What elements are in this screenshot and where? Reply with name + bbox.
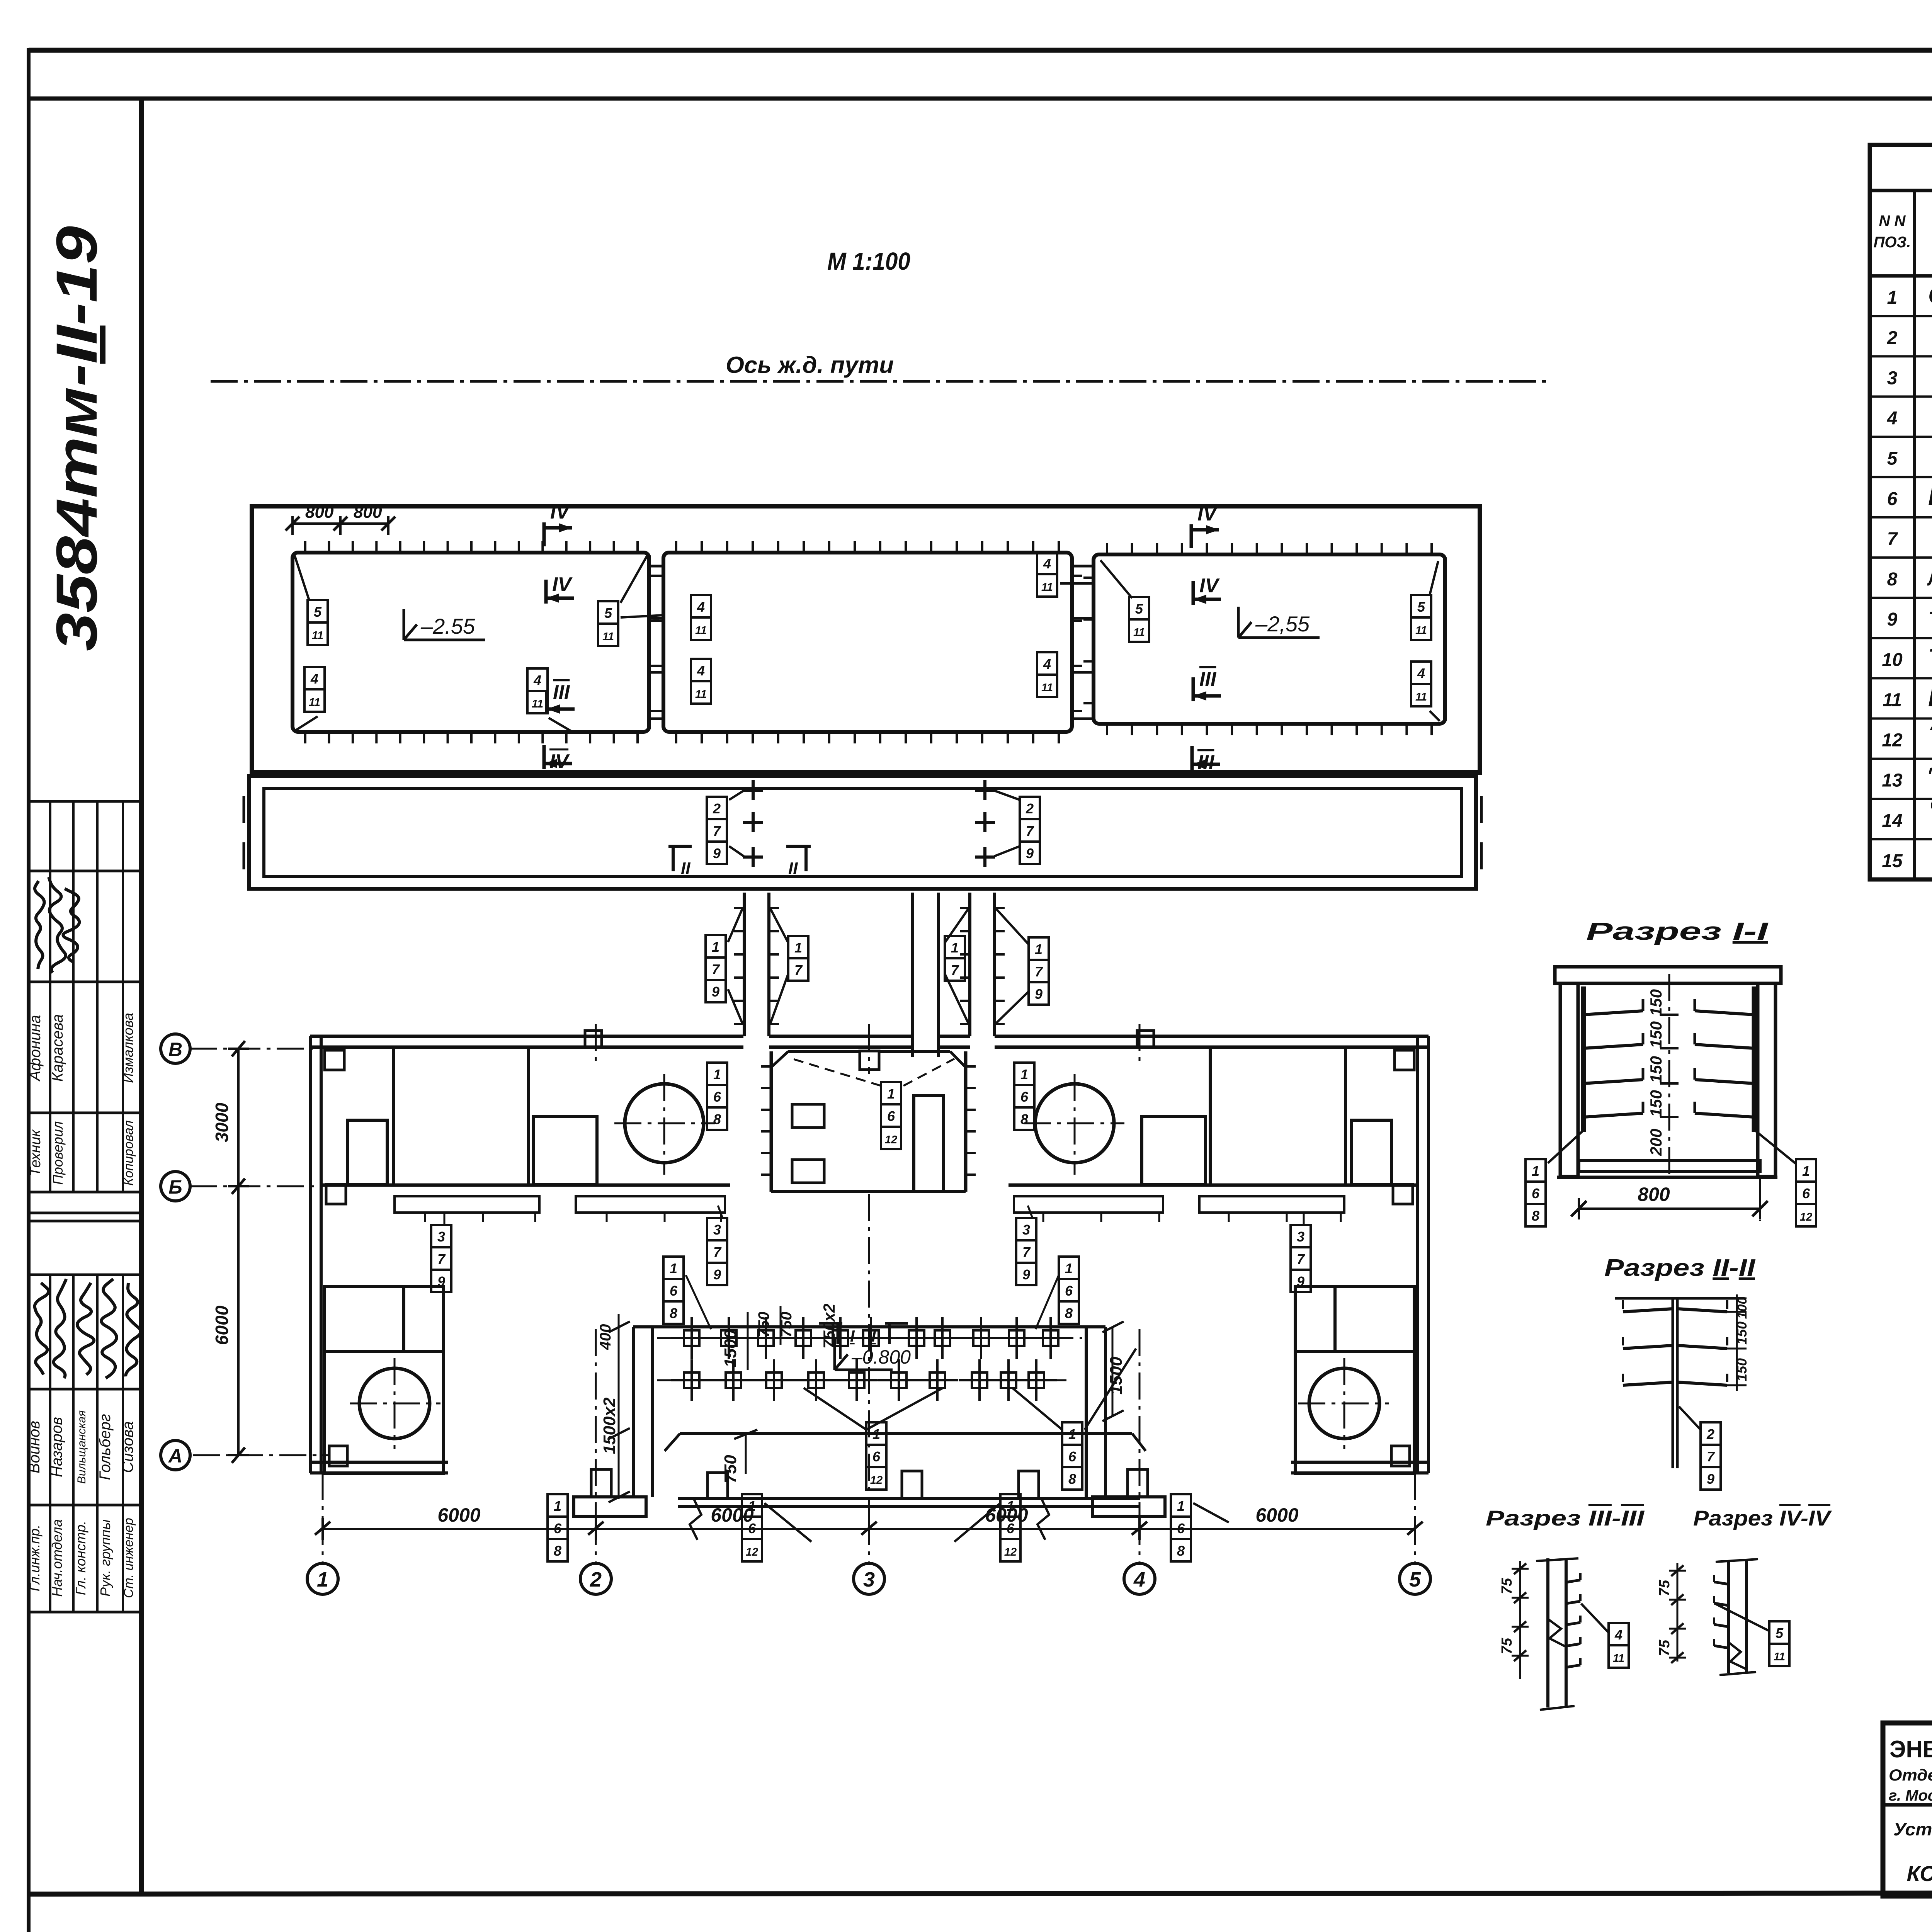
svg-text:9: 9 xyxy=(713,845,721,861)
svg-text:ПОЗ.: ПОЗ. xyxy=(1874,234,1911,251)
svg-text:IV: IV xyxy=(552,573,573,596)
svg-text:800: 800 xyxy=(1638,1184,1670,1205)
svg-text:1: 1 xyxy=(713,1066,721,1082)
svg-text:–0.800: –0.800 xyxy=(851,1346,911,1368)
central hall walls xyxy=(770,1051,773,1192)
svg-text:11: 11 xyxy=(695,624,707,637)
svg-text:8: 8 xyxy=(1065,1305,1073,1321)
sheet frame bottom xyxy=(29,1893,1932,1894)
svg-text:2: 2 xyxy=(1706,1426,1714,1442)
section I-I label boxes xyxy=(1526,1159,1546,1182)
shelf strips left wing xyxy=(395,1196,539,1213)
svg-text:IV: IV xyxy=(550,501,571,523)
svg-text:1: 1 xyxy=(1020,1066,1028,1082)
svg-text:5: 5 xyxy=(1887,449,1898,469)
strip signatures row 2 xyxy=(35,1283,49,1375)
left wing lower room xyxy=(325,1286,444,1473)
svg-text:1: 1 xyxy=(794,940,802,956)
svg-text:11: 11 xyxy=(312,629,323,642)
svg-text:11: 11 xyxy=(1415,624,1427,637)
svg-text:3: 3 xyxy=(1887,368,1898,388)
plan top wall xyxy=(310,1035,743,1038)
svg-text:75: 75 xyxy=(1499,1638,1515,1654)
svg-text:1: 1 xyxy=(1065,1260,1073,1276)
svg-text:5: 5 xyxy=(1135,601,1143,617)
svg-text:12: 12 xyxy=(746,1546,758,1558)
svg-text:1500x2: 1500x2 xyxy=(600,1397,619,1454)
svg-text:То же, но угловой: То же, но угловой xyxy=(1928,643,1932,671)
inner left strip divider xyxy=(139,99,144,1894)
trench cross row 2 xyxy=(684,1372,699,1388)
section IV-IV wall xyxy=(1727,1560,1730,1673)
svg-text:3: 3 xyxy=(863,1568,875,1591)
svg-text:11: 11 xyxy=(1041,682,1053,694)
svg-text:III: III xyxy=(1197,751,1215,774)
svg-text:7: 7 xyxy=(951,962,959,978)
corridor outer rectangle xyxy=(249,776,1476,889)
svg-text:200: 200 xyxy=(1647,1129,1665,1156)
svg-text:8: 8 xyxy=(1177,1543,1185,1559)
svg-text:11: 11 xyxy=(1415,691,1427,703)
plan left wing bottom wall xyxy=(310,1461,448,1464)
upper rect 3 xyxy=(1094,554,1445,724)
svg-text:5: 5 xyxy=(1417,599,1425,615)
svg-text:750: 750 xyxy=(755,1312,772,1338)
svg-text:6: 6 xyxy=(887,1108,895,1124)
right channel walls xyxy=(968,893,971,1036)
section mark III left xyxy=(545,690,549,714)
svg-text:150: 150 xyxy=(1734,1321,1750,1345)
svg-text:4: 4 xyxy=(310,671,318,687)
svg-text:150: 150 xyxy=(1647,1090,1665,1117)
svg-text:12: 12 xyxy=(1800,1211,1812,1223)
svg-text:Проверил: Проверил xyxy=(50,1121,66,1185)
section IV-IV dim line xyxy=(1677,1563,1679,1662)
lower band bottom double line xyxy=(678,1497,1140,1500)
svg-text:6000: 6000 xyxy=(1255,1504,1298,1526)
upper outer rectangle xyxy=(252,506,1480,772)
right wing corner squares xyxy=(1395,1050,1414,1070)
svg-text:4: 4 xyxy=(697,663,705,679)
railway axis dash-dot line xyxy=(211,380,1548,383)
svg-text:1: 1 xyxy=(317,1568,328,1591)
rect3 label boxes xyxy=(1129,597,1149,619)
svg-text:11: 11 xyxy=(1041,581,1053,594)
svg-text:7: 7 xyxy=(1022,1244,1031,1260)
upper rect 1 xyxy=(293,553,649,732)
row axis dash-dot lines xyxy=(190,1048,313,1050)
title block outer xyxy=(1883,1723,1932,1896)
svg-text:6: 6 xyxy=(1887,489,1898,509)
svg-text:3584тм-II-19: 3584тм-II-19 xyxy=(44,226,109,651)
row B wall left wing xyxy=(321,1184,730,1187)
svg-text:6: 6 xyxy=(1802,1185,1810,1201)
svg-text:Разрез IV-IV: Разрез IV-IV xyxy=(1693,1506,1832,1530)
svg-text:11: 11 xyxy=(532,698,543,710)
svg-text:1: 1 xyxy=(712,939,719,955)
right wing lower room xyxy=(1295,1286,1414,1473)
svg-text:Разрез I-I: Разрез I-I xyxy=(1586,917,1769,945)
svg-text:ЭНЕРГОСЕТЬПРОЕКТ: ЭНЕРГОСЕТЬПРОЕКТ xyxy=(1889,1736,1932,1763)
left wing partitions xyxy=(392,1047,395,1184)
section mark IV mid-right xyxy=(1192,581,1195,605)
left wing machine circle xyxy=(625,1084,704,1163)
svg-text:6: 6 xyxy=(1068,1449,1077,1464)
svg-text:11: 11 xyxy=(695,688,707,701)
corridor label box left 2/7/9 xyxy=(707,797,727,819)
svg-text:800: 800 xyxy=(305,503,334,522)
grid row bubbles left xyxy=(161,1034,190,1063)
svg-text:6: 6 xyxy=(1532,1185,1540,1201)
svg-text:I: I xyxy=(850,1327,855,1345)
section mark IV top-right xyxy=(1190,524,1193,548)
svg-text:9: 9 xyxy=(713,1267,721,1282)
svg-text:4: 4 xyxy=(533,672,541,688)
svg-text:г. Москва: г. Москва xyxy=(1889,1787,1932,1804)
channel funnel leaders xyxy=(728,908,743,942)
row dim line left xyxy=(237,1049,240,1455)
svg-text:6000: 6000 xyxy=(985,1504,1028,1526)
svg-text:1: 1 xyxy=(887,1086,895,1102)
svg-text:9: 9 xyxy=(1026,845,1034,861)
svg-text:150: 150 xyxy=(1647,989,1665,1016)
svg-text:75: 75 xyxy=(1656,1639,1673,1656)
svg-text:А: А xyxy=(168,1445,182,1467)
svg-text:9: 9 xyxy=(1022,1267,1030,1282)
svg-text:6: 6 xyxy=(1065,1283,1073,1299)
svg-text:5: 5 xyxy=(314,604,322,620)
svg-text:Карасева: Карасева xyxy=(49,1014,66,1082)
svg-text:Гл. констр.: Гл. констр. xyxy=(73,1521,88,1595)
svg-text:2: 2 xyxy=(1887,328,1898,348)
left wing lower circle xyxy=(359,1368,430,1439)
svg-text:5: 5 xyxy=(1409,1568,1421,1591)
rect3 edge ticks xyxy=(1106,543,1108,554)
section II-II shelves xyxy=(1623,1309,1673,1312)
svg-text:N N: N N xyxy=(1879,213,1906,230)
right wing lower circle xyxy=(1309,1368,1379,1439)
shelf strips right wing xyxy=(1014,1196,1163,1213)
svg-text:–2,55: –2,55 xyxy=(1255,612,1310,636)
svg-text:8: 8 xyxy=(1020,1111,1028,1127)
svg-text:Рук. группы: Рук. группы xyxy=(97,1519,113,1597)
svg-text:6: 6 xyxy=(872,1449,881,1464)
svg-text:Асбоцементная перегородка: Асбоцементная перегородка xyxy=(1930,714,1932,734)
svg-text:3000: 3000 xyxy=(212,1102,232,1142)
svg-text:5: 5 xyxy=(604,605,612,621)
svg-text:14: 14 xyxy=(1882,811,1902,831)
svg-text:4: 4 xyxy=(1043,556,1051,571)
svg-text:9: 9 xyxy=(712,984,719,1000)
svg-text:7: 7 xyxy=(1035,964,1043,980)
svg-text:Отделение Дальних Передач: Отделение Дальних Передач xyxy=(1889,1766,1932,1784)
svg-text:6000: 6000 xyxy=(711,1504,753,1526)
level mark -2.55 rect3 xyxy=(1237,607,1240,638)
corridor plus marks left group xyxy=(743,789,763,792)
svg-text:Б: Б xyxy=(168,1176,182,1198)
label boxes 1/6/8 beside hall xyxy=(663,1257,684,1279)
svg-text:Установка синхронных: Установка синхронных xyxy=(1893,1819,1932,1839)
svg-text:1: 1 xyxy=(670,1260,677,1276)
rect2 edge ticks xyxy=(675,541,677,553)
svg-text:Соединитель асбоцементных: Соединитель асбоцементных xyxy=(1930,794,1932,815)
strip signatures row 1 xyxy=(35,881,44,969)
channel label boxes xyxy=(706,935,726,957)
svg-text:То же, но щириной 131мм: То же, но щириной 131мм xyxy=(1928,608,1932,630)
section mark IV bottom-left xyxy=(543,745,546,769)
section IV-IV hooks xyxy=(1714,1582,1728,1584)
corridor inner rectangle xyxy=(264,788,1461,876)
svg-text:1500: 1500 xyxy=(1107,1357,1126,1395)
corridor label box right 2/7/9 xyxy=(1020,797,1040,819)
section II-II label box 2/7/9 xyxy=(1701,1422,1721,1445)
svg-text:13: 13 xyxy=(1882,770,1903,791)
rect1-rect2 connector leader xyxy=(621,615,663,617)
svg-text:750: 750 xyxy=(721,1455,740,1483)
svg-text:12: 12 xyxy=(1004,1546,1017,1558)
svg-text:75: 75 xyxy=(1499,1578,1515,1594)
svg-text:2: 2 xyxy=(713,801,721,816)
section II-II post xyxy=(1672,1298,1674,1468)
svg-text:8: 8 xyxy=(1068,1471,1076,1487)
svg-text:–2.55: –2.55 xyxy=(420,614,475,638)
svg-text:8: 8 xyxy=(670,1305,677,1321)
hall interior rects xyxy=(792,1104,824,1128)
svg-text:4: 4 xyxy=(1887,408,1898,429)
svg-text:11: 11 xyxy=(1774,1651,1785,1663)
svg-text:7: 7 xyxy=(713,823,721,839)
svg-text:1: 1 xyxy=(554,1498,561,1514)
section II-II top line xyxy=(1615,1297,1745,1300)
sheet frame left edge xyxy=(27,48,31,1932)
plan right outer wall xyxy=(1416,1036,1419,1473)
section IV-IV label box 5/11 xyxy=(1769,1621,1789,1644)
svg-text:15: 15 xyxy=(1882,851,1903,871)
section mark III right xyxy=(1192,677,1195,701)
section I-I left stand xyxy=(1581,986,1586,1132)
level mark -0.800 xyxy=(833,1339,836,1370)
svg-text:11: 11 xyxy=(1613,1652,1624,1665)
gap ticks between rect1 and rect2 xyxy=(649,565,663,568)
right wing machine circle xyxy=(1035,1084,1114,1163)
section III-III dim line xyxy=(1519,1561,1521,1679)
svg-text:Разрез II-II: Разрез II-II xyxy=(1604,1255,1756,1281)
section mark II left xyxy=(668,845,692,848)
svg-text:3: 3 xyxy=(437,1229,445,1245)
svg-text:8: 8 xyxy=(713,1111,721,1127)
svg-text:3: 3 xyxy=(713,1222,721,1238)
svg-text:II: II xyxy=(788,859,798,878)
lower band stub squares xyxy=(707,1473,728,1498)
rect1 edge ticks xyxy=(304,541,306,553)
svg-text:400: 400 xyxy=(597,1324,614,1350)
svg-text:1: 1 xyxy=(1887,287,1898,308)
trench left wall xyxy=(632,1327,635,1497)
rect1 label boxes xyxy=(308,600,328,622)
svg-text:12: 12 xyxy=(885,1134,897,1146)
svg-text:5: 5 xyxy=(1776,1625,1784,1641)
svg-text:Гл.инж.пр.: Гл.инж.пр. xyxy=(27,1525,43,1592)
break marks xyxy=(690,1498,701,1540)
svg-text:Назаров: Назаров xyxy=(48,1417,65,1477)
left wing corner squares xyxy=(325,1050,344,1070)
svg-text:11: 11 xyxy=(1133,626,1145,639)
row B wall right wing xyxy=(1009,1184,1418,1187)
section mark IV mid-left xyxy=(544,580,548,604)
svg-text:II: II xyxy=(681,859,690,878)
section mark III bottom-right xyxy=(1190,746,1194,770)
svg-text:IV: IV xyxy=(549,750,570,773)
svg-text:КСВБ-50-11У1: КСВБ-50-11У1 xyxy=(1906,1861,1932,1886)
corridor plus marks right group xyxy=(975,789,995,792)
left strip signature table xyxy=(29,800,141,803)
grid bubbles bottom xyxy=(322,1518,324,1563)
svg-text:1500: 1500 xyxy=(721,1330,740,1367)
title block left cell xyxy=(1883,1803,1932,1807)
section I-I top slab xyxy=(1555,967,1781,983)
svg-text:1: 1 xyxy=(1802,1163,1810,1179)
grid column axis segments xyxy=(322,1473,324,1518)
dim 750 lower band xyxy=(745,1434,747,1474)
plan right wing bottom wall xyxy=(1291,1461,1429,1464)
svg-text:8: 8 xyxy=(554,1543,561,1559)
svg-text:Сизова: Сизова xyxy=(119,1421,136,1473)
grid dim line bottom xyxy=(323,1528,1415,1530)
svg-text:Копировал: Копировал xyxy=(121,1120,136,1185)
rail lines xyxy=(911,893,914,1057)
svg-text:III: III xyxy=(553,681,570,704)
svg-text:1: 1 xyxy=(951,940,959,956)
section I-I centerline xyxy=(1668,974,1670,1177)
svg-text:Афонина: Афонина xyxy=(27,1015,44,1082)
svg-text:В: В xyxy=(168,1039,182,1060)
svg-text:Полка кабельная: Полка кабельная xyxy=(1928,483,1932,510)
rect1 leaders xyxy=(294,555,309,600)
svg-text:11: 11 xyxy=(309,696,320,709)
svg-text:Ось ж.д. пути: Ось ж.д. пути xyxy=(726,352,894,378)
trench cross row 1 xyxy=(684,1330,699,1346)
section I-I right stand xyxy=(1752,986,1757,1132)
svg-text:7: 7 xyxy=(713,1244,722,1260)
corridor end ticks xyxy=(243,796,245,823)
svg-text:Войнов: Войнов xyxy=(26,1421,43,1473)
svg-text:Гольберг: Гольберг xyxy=(97,1414,114,1480)
plan left outer wall xyxy=(309,1036,312,1473)
svg-text:4: 4 xyxy=(697,599,705,615)
section III-III label box 4/11 xyxy=(1609,1623,1629,1645)
svg-text:7: 7 xyxy=(1026,823,1034,839)
svg-text:11: 11 xyxy=(602,631,614,643)
svg-text:12: 12 xyxy=(870,1474,883,1486)
svg-text:Техник: Техник xyxy=(27,1129,44,1176)
svg-text:12: 12 xyxy=(1882,730,1903,751)
trench right wall xyxy=(1085,1327,1088,1497)
sheet frame top band line 1 xyxy=(29,48,1932,53)
svg-text:6: 6 xyxy=(1020,1089,1029,1105)
svg-text:3: 3 xyxy=(1297,1229,1304,1245)
svg-text:Подвеска закладная: Подвеска закладная xyxy=(1928,684,1932,711)
svg-text:11: 11 xyxy=(1883,690,1902,710)
svg-text:4: 4 xyxy=(1043,656,1051,672)
svg-text:7: 7 xyxy=(1297,1251,1305,1267)
svg-text:750x2: 750x2 xyxy=(820,1304,838,1349)
svg-text:9: 9 xyxy=(437,1274,445,1289)
svg-text:7: 7 xyxy=(712,961,720,977)
svg-text:Измалкова: Измалкова xyxy=(120,1013,136,1083)
svg-text:Стойка кабельная: Стойка кабельная xyxy=(1928,281,1932,309)
svg-text:2: 2 xyxy=(590,1568,602,1591)
section I-I posts xyxy=(1560,983,1578,1177)
svg-text:1: 1 xyxy=(872,1426,880,1442)
svg-text:6000: 6000 xyxy=(437,1504,480,1526)
svg-text:6: 6 xyxy=(670,1283,678,1299)
left channel walls xyxy=(743,893,746,1036)
svg-text:Разрез III-III: Разрез III-III xyxy=(1486,1506,1645,1530)
rect3 leaders xyxy=(1100,560,1132,598)
svg-text:150: 150 xyxy=(1734,1358,1750,1381)
svg-text:2: 2 xyxy=(1026,801,1034,816)
svg-text:IV: IV xyxy=(1199,575,1220,597)
footing pad column 4 xyxy=(1093,1497,1165,1516)
gap ticks between rect2 and rect3 xyxy=(1072,565,1094,568)
section mark II right xyxy=(786,845,811,848)
dim 800 800 xyxy=(293,522,388,525)
section I-I bottom slab xyxy=(1579,1161,1760,1172)
svg-text:Нач.отдела: Нач.отдела xyxy=(49,1519,65,1597)
svg-text:9: 9 xyxy=(1035,986,1043,1002)
section mark IV top-left xyxy=(543,522,546,546)
svg-text:I: I xyxy=(871,1327,876,1345)
level mark -2.55 rect1 xyxy=(403,609,405,640)
section I marks in plan xyxy=(819,1322,842,1325)
svg-text:9: 9 xyxy=(1887,609,1898,630)
svg-text:7: 7 xyxy=(437,1251,446,1267)
svg-text:1: 1 xyxy=(1532,1163,1539,1179)
svg-text:М 1:100: М 1:100 xyxy=(827,247,910,275)
section I-I dim 800 xyxy=(1579,1207,1760,1210)
svg-text:7: 7 xyxy=(1707,1449,1715,1464)
sheet frame top band line 2 xyxy=(29,97,1932,101)
hall top center stub xyxy=(860,1051,879,1070)
lower band label boxes xyxy=(866,1422,886,1445)
footing pad column 2 xyxy=(574,1497,646,1516)
svg-text:150: 150 xyxy=(1647,1021,1665,1048)
svg-text:7: 7 xyxy=(794,962,803,978)
section II-II dims xyxy=(1736,1294,1738,1391)
bottom label boxes xyxy=(548,1494,568,1517)
specification table xyxy=(1870,145,1932,879)
label boxes 3/7/9 xyxy=(431,1225,451,1247)
svg-text:7: 7 xyxy=(1887,529,1898,549)
svg-text:10: 10 xyxy=(1882,650,1903,670)
upper rect 2 xyxy=(663,553,1072,732)
lower band top edge xyxy=(680,1432,1132,1435)
svg-text:1: 1 xyxy=(1068,1426,1076,1442)
trench top edge xyxy=(633,1325,1105,1328)
section I-I level dims xyxy=(1660,982,1679,985)
section III-III hooks xyxy=(1566,1580,1580,1582)
svg-text:4: 4 xyxy=(1417,665,1425,681)
section III-III wall xyxy=(1546,1558,1549,1708)
top wall column stubs xyxy=(585,1031,602,1047)
svg-text:III: III xyxy=(1199,668,1217,690)
svg-text:8: 8 xyxy=(1532,1208,1539,1224)
hall label box 1/6/12 xyxy=(881,1082,901,1104)
svg-text:IV: IV xyxy=(1197,503,1218,525)
label boxes 1/6/8 wings top xyxy=(707,1063,727,1085)
svg-text:9: 9 xyxy=(1707,1471,1714,1487)
rect2 label boxes xyxy=(691,595,711,617)
